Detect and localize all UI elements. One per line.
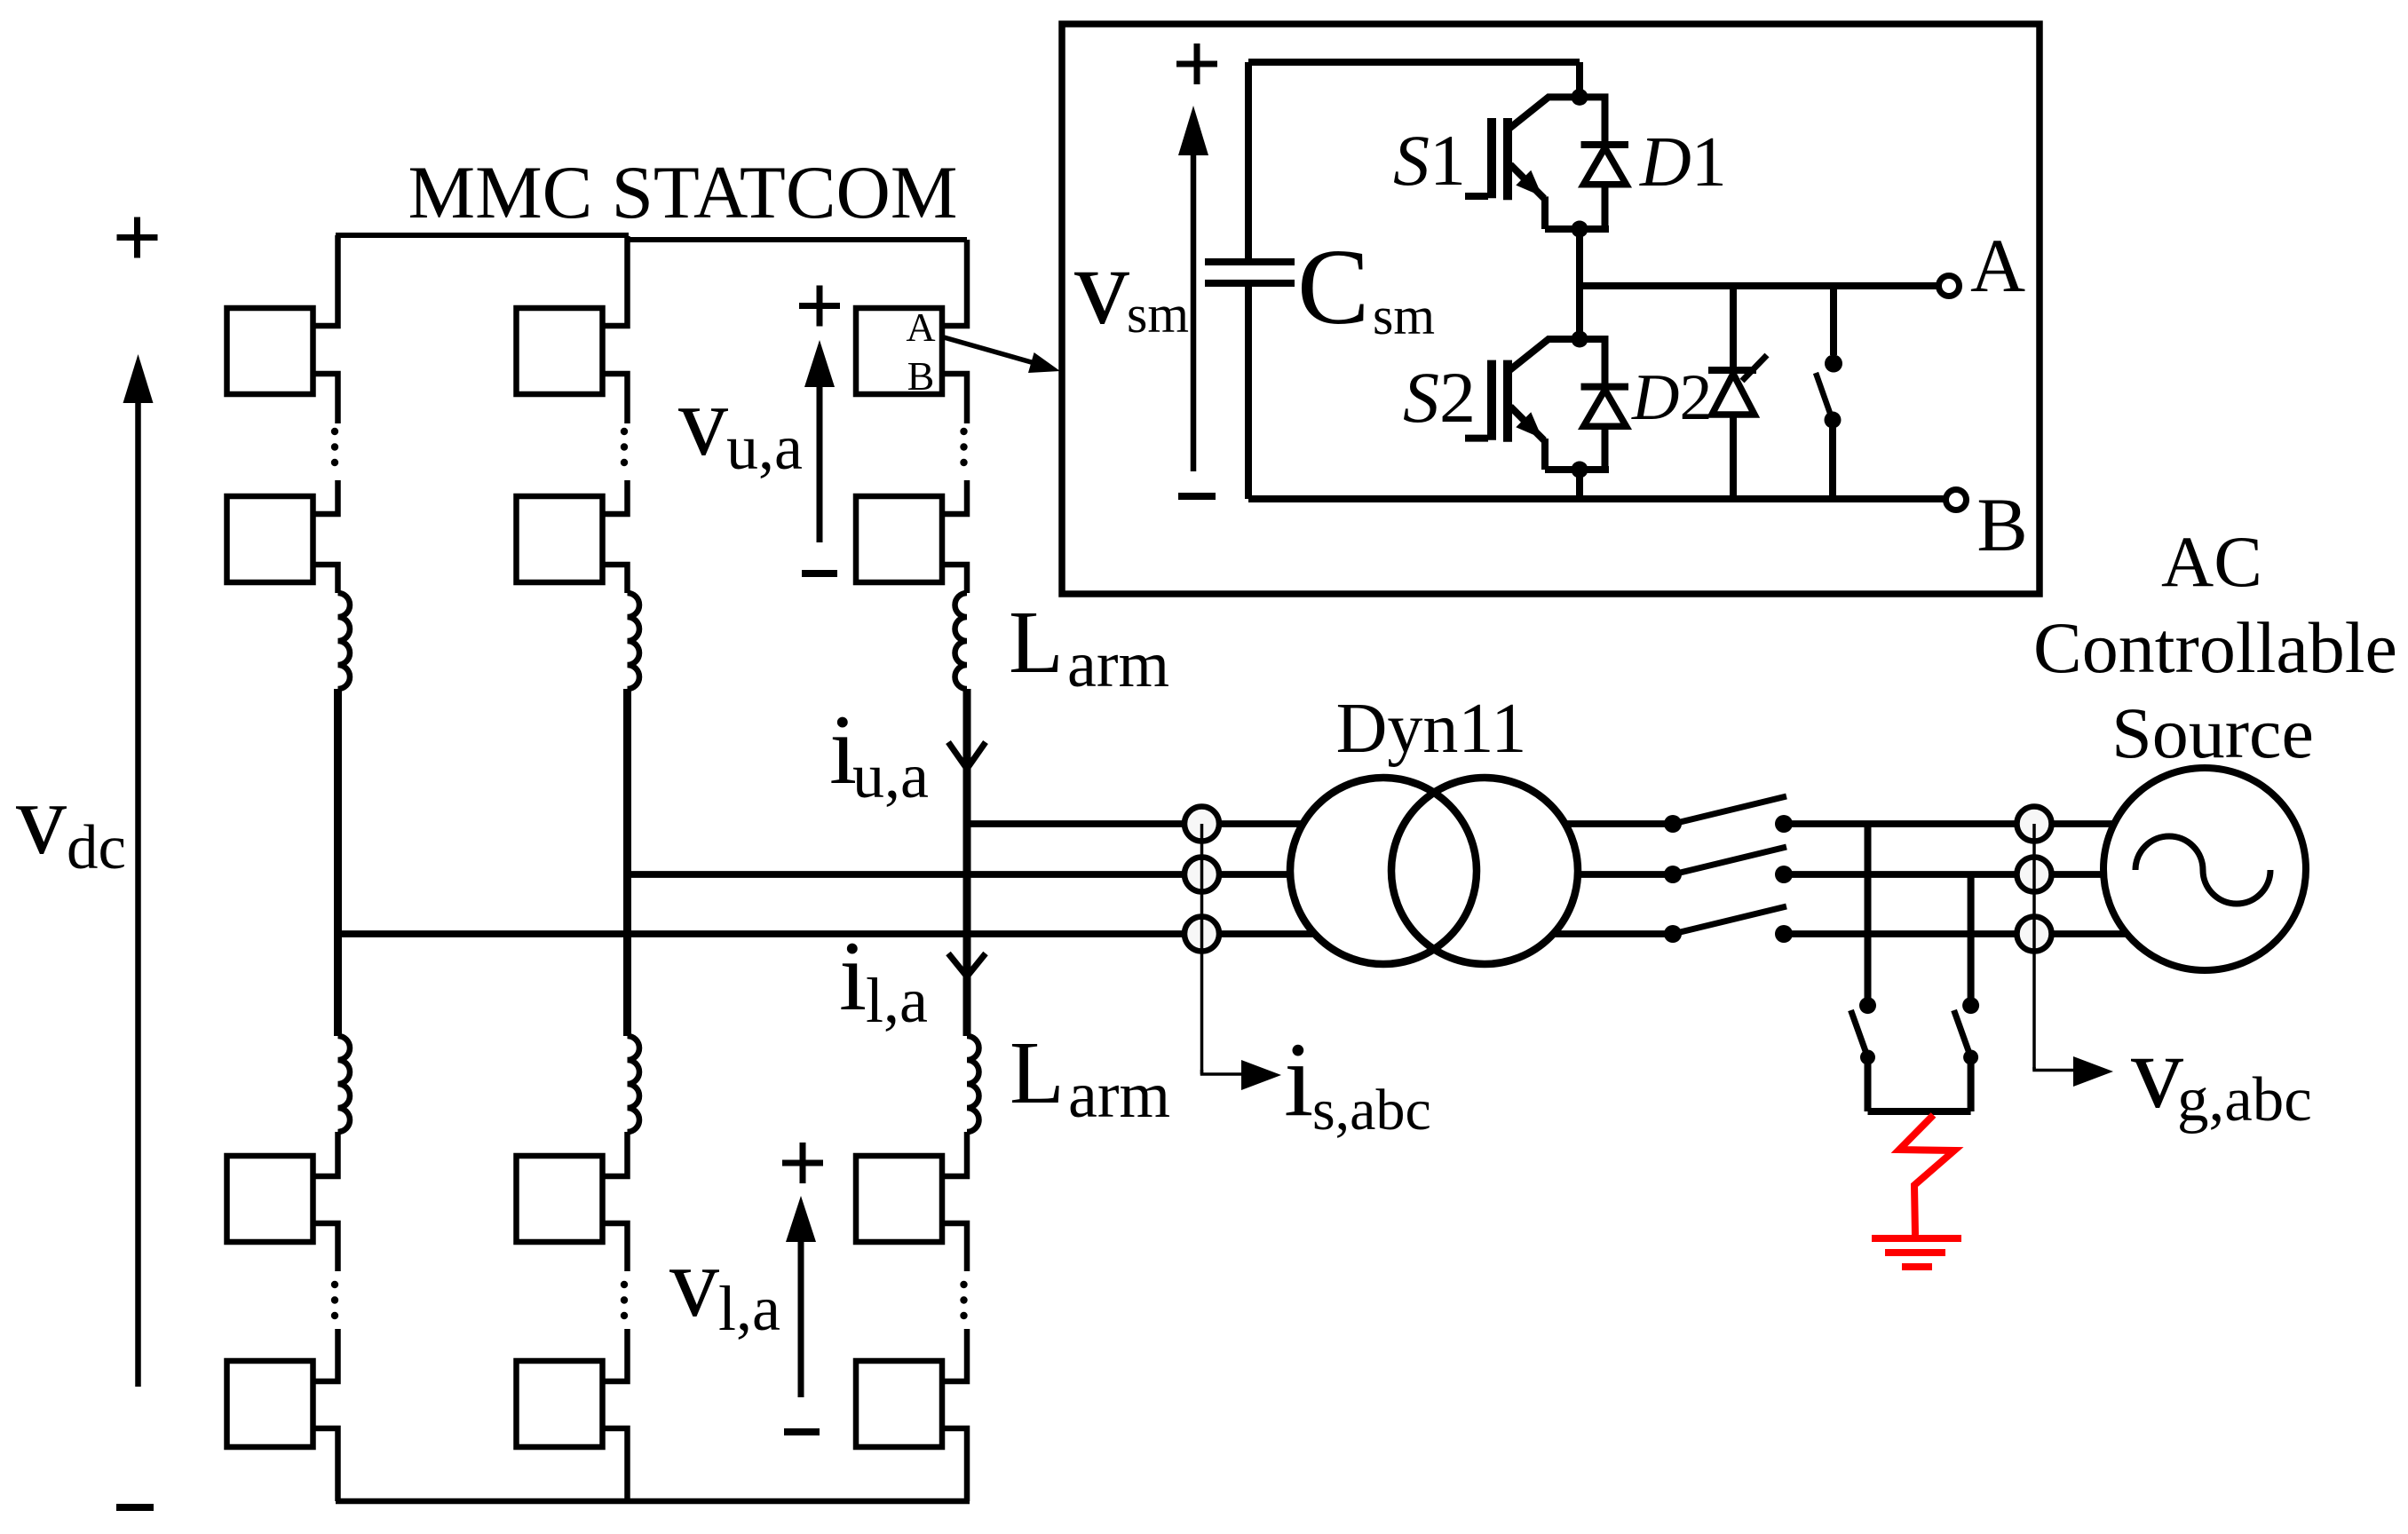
svg-text:A: A [906, 304, 935, 350]
svg-text:B: B [1976, 482, 2027, 567]
svg-text:A: A [1970, 223, 2025, 308]
svg-text:L: L [1009, 592, 1064, 692]
svg-text:v: v [678, 367, 728, 477]
svg-text:D2: D2 [1631, 361, 1712, 434]
svg-text:MMC STATCOM: MMC STATCOM [408, 151, 957, 234]
svg-text:sm: sm [1373, 287, 1435, 345]
svg-text:dc: dc [67, 813, 126, 882]
svg-text:B: B [907, 353, 935, 399]
svg-text:Dyn11: Dyn11 [1336, 690, 1527, 768]
svg-text:AC: AC [2161, 521, 2262, 602]
svg-text:i: i [839, 921, 867, 1032]
svg-text:l,a: l,a [718, 1273, 780, 1344]
svg-text:D1: D1 [1639, 123, 1727, 202]
svg-text:i: i [1284, 1020, 1313, 1138]
svg-text:s,abc: s,abc [1312, 1078, 1431, 1143]
svg-text:u,a: u,a [852, 740, 929, 811]
svg-text:arm: arm [1067, 629, 1169, 701]
svg-text:Controllable: Controllable [2033, 607, 2397, 688]
svg-text:S2: S2 [1403, 357, 1476, 438]
svg-text:C: C [1297, 227, 1369, 347]
svg-text:S1: S1 [1393, 120, 1466, 201]
svg-text:g,abc: g,abc [2177, 1065, 2312, 1135]
svg-text:L: L [1010, 1023, 1065, 1122]
svg-text:sm: sm [1127, 285, 1189, 344]
svg-text:arm: arm [1068, 1059, 1170, 1132]
svg-text:u,a: u,a [726, 412, 803, 483]
svg-text:v: v [16, 763, 67, 875]
svg-text:Source: Source [2111, 692, 2314, 773]
svg-text:v: v [669, 1228, 719, 1338]
svg-text:v: v [1074, 225, 1129, 347]
svg-text:l,a: l,a [866, 965, 928, 1036]
svg-text:v: v [2131, 1014, 2183, 1130]
